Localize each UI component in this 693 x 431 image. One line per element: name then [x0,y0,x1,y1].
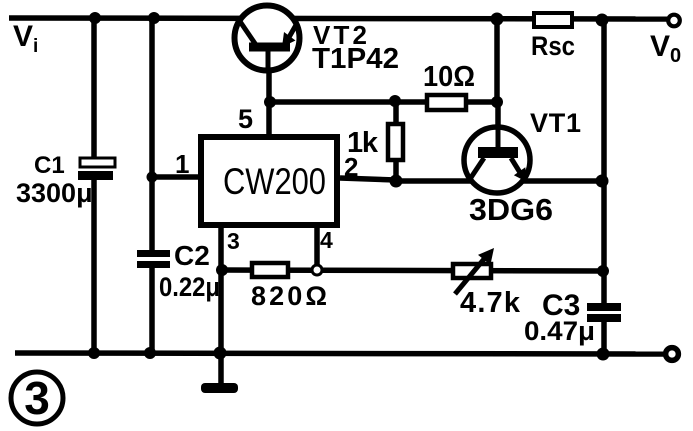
svg-text:4: 4 [320,227,333,253]
svg-text:VT1: VT1 [530,108,581,138]
svg-text:T1P42: T1P42 [312,43,399,75]
svg-text:5: 5 [238,104,253,134]
svg-text:10Ω: 10Ω [423,61,475,93]
svg-text:C1: C1 [34,152,65,179]
svg-text:3: 3 [227,228,240,254]
svg-text:4.7k: 4.7k [460,287,521,319]
svg-text:CW200: CW200 [223,161,326,202]
svg-text:C2: C2 [174,240,210,271]
svg-text:1: 1 [175,149,189,179]
svg-text:3300μ: 3300μ [16,178,93,208]
svg-text:Rsc: Rsc [531,31,575,61]
svg-text:3DG6: 3DG6 [469,192,553,227]
svg-text:3: 3 [24,372,50,424]
svg-text:0.22μ: 0.22μ [159,272,220,302]
svg-text:2: 2 [344,152,358,182]
svg-text:0.47μ: 0.47μ [524,316,595,346]
svg-text:820Ω: 820Ω [251,281,327,311]
